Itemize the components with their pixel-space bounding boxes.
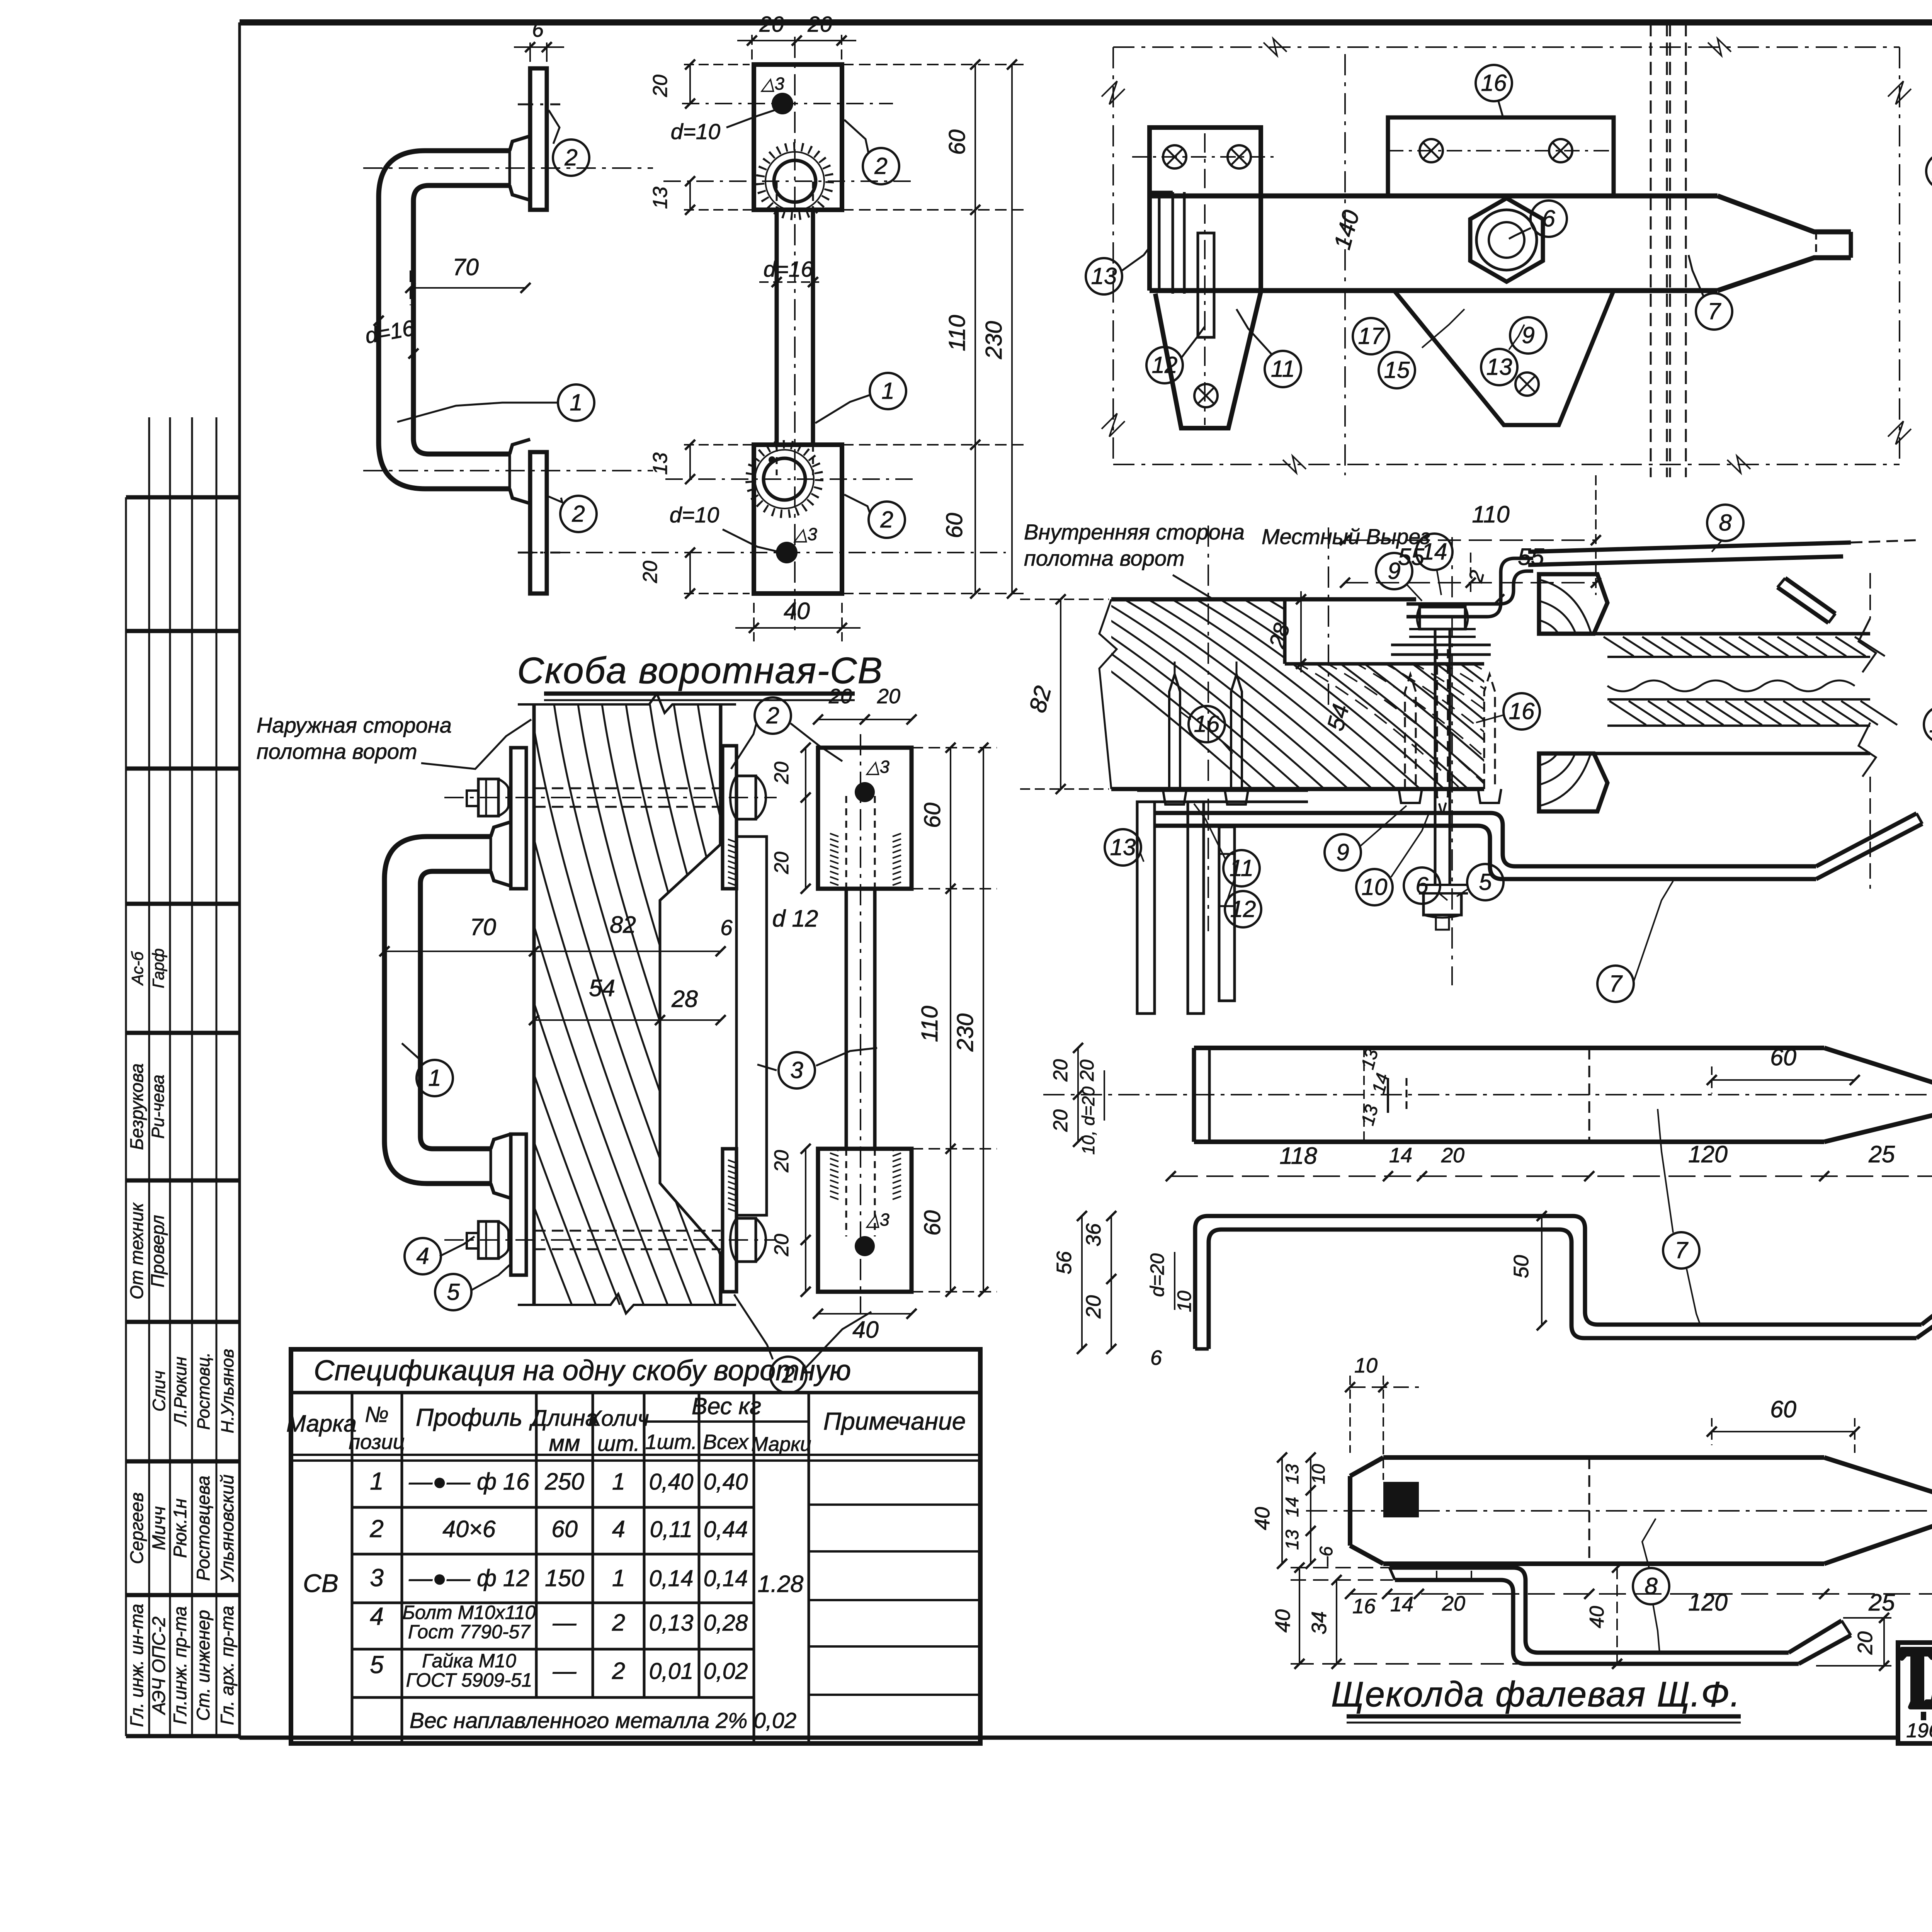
svg-text:60: 60 (944, 129, 970, 155)
dim 70 (405, 254, 531, 305)
stamp names (rotated) (126, 1475, 237, 1582)
svg-text:АЭЧ ОПС-2: АЭЧ ОПС-2 (148, 1617, 169, 1716)
label d=16 (side) (363, 316, 418, 359)
svg-text:20: 20 (1082, 1295, 1105, 1319)
svg-text:20: 20 (1854, 1631, 1877, 1655)
nut item 5 bottom (730, 1218, 766, 1262)
callout 12 (plan) (1146, 327, 1205, 383)
svg-text:60: 60 (1770, 1044, 1796, 1070)
svg-text:Марки: Марки (751, 1433, 811, 1456)
stamp job titles (rotated) (126, 1604, 237, 1727)
svg-text:0,40: 0,40 (704, 1469, 748, 1495)
svg-text:10: 10 (1929, 711, 1932, 737)
svg-text:13: 13 (649, 187, 672, 209)
svg-text:20: 20 (770, 1150, 793, 1173)
svg-text:0,01: 0,01 (649, 1658, 694, 1684)
svg-text:40: 40 (1586, 1606, 1608, 1628)
svg-text:9: 9 (1336, 839, 1349, 865)
stamp author row (rotated) (126, 1063, 168, 1150)
svg-text:0,44: 0,44 (704, 1517, 748, 1542)
svg-text:Ас-б: Ас-б (128, 951, 146, 986)
svg-text:1шт.: 1шт. (645, 1430, 697, 1454)
svg-text:d=10: d=10 (670, 503, 719, 527)
slider item 12 (plan) (1198, 233, 1214, 337)
svg-text:60: 60 (551, 1516, 578, 1542)
svg-text:20: 20 (1441, 1144, 1464, 1167)
angle strap horizontal leg (1137, 791, 1308, 802)
svg-text:120: 120 (1688, 1141, 1728, 1167)
svg-text:4: 4 (370, 1602, 384, 1630)
callouts 17/15/13/9 around trapezoid (1353, 309, 1546, 388)
svg-text:12: 12 (1152, 352, 1178, 378)
bolt item 4 top (444, 779, 777, 816)
screws item 16 left pair (1163, 662, 1248, 804)
svg-text:Наружная сторона: Наружная сторона (257, 713, 452, 737)
svg-text:Гл.инж. пр-та: Гл.инж. пр-та (170, 1606, 190, 1725)
svg-text:20: 20 (770, 852, 793, 874)
bar 8 flat view (1306, 1458, 1932, 1564)
svg-text:4: 4 (416, 1243, 429, 1269)
hex nut item 6 on bar (plan) (1470, 198, 1543, 282)
label naruzhnaya storona (257, 713, 531, 769)
svg-text:40×6: 40×6 (442, 1516, 495, 1542)
svg-text:Вес наплавленного металла 2%: Вес наплавленного металла 2% 0,02 (410, 1708, 796, 1733)
svg-text:14: 14 (1389, 1144, 1412, 1167)
svg-text:Мичч: Мичч (148, 1506, 169, 1550)
callout 8 (flat views) (1633, 1519, 1669, 1653)
svg-text:Примечание: Примечание (823, 1407, 966, 1435)
svg-text:8: 8 (1645, 1573, 1658, 1599)
label mestnyi vyrez (1262, 524, 1430, 549)
gate leaf 2 post with end grain (1539, 574, 1607, 811)
hanging bar item 11 leg (1188, 802, 1204, 1014)
svg-text:70: 70 (452, 254, 479, 280)
callout 10 long leader (1924, 706, 1932, 743)
svg-text:16: 16 (1194, 711, 1220, 737)
callout 13 (plan) (1086, 247, 1150, 294)
svg-text:10: 10 (1173, 1291, 1195, 1312)
svg-text:4: 4 (612, 1516, 625, 1542)
svg-text:мм: мм (549, 1430, 580, 1456)
section dim 20 top right (1464, 568, 1504, 604)
title block frame (1898, 1643, 1932, 1743)
section centerline verticals (1208, 526, 1452, 985)
svg-text:6: 6 (532, 18, 544, 41)
bar 8 dims top 10 (1345, 1354, 1419, 1480)
svg-text:Профиль: Профиль (416, 1403, 522, 1431)
svg-text:Местный Вырез: Местный Вырез (1262, 524, 1430, 549)
title: Skoba vorotnaya-SV (517, 650, 883, 700)
svg-text:2: 2 (766, 702, 779, 728)
section callout 16 left (1179, 706, 1233, 753)
section dim 28 (1264, 591, 1306, 672)
middle keeper top tab (plan) (1388, 117, 1614, 196)
section dim 54 rotated (1322, 701, 1354, 733)
bar 7 bottom dims 118/14/20/120/25 (1166, 1141, 1932, 1181)
svg-text:120: 120 (1688, 1589, 1728, 1616)
svg-text:20: 20 (828, 685, 852, 708)
callout 2 (mounted top) (731, 697, 842, 769)
bar 7 hook right (section) (1816, 813, 1922, 879)
dim 60 over bar 7 taper (1707, 1044, 1860, 1094)
callout 7 (flat views) (1658, 1109, 1700, 1325)
stamp signatures (rotated squiggles) (149, 1349, 237, 1434)
latch bar item 7 (plan) (1150, 196, 1851, 291)
mortise notch in board (660, 844, 721, 1251)
bar 7 mid hole dims 13/14/13 (1357, 1047, 1393, 1144)
face plate item 2 inner bottom (723, 1149, 736, 1292)
bar 7 left end dims (1049, 1043, 1104, 1155)
svg-text:230: 230 (952, 1014, 978, 1052)
svg-text:7: 7 (1609, 971, 1623, 997)
svg-text:36: 36 (1082, 1223, 1105, 1247)
svg-text:1: 1 (428, 1065, 441, 1091)
skoba side view centerlines (363, 168, 653, 471)
section callout 8 (1707, 505, 1743, 552)
section bottom callouts 13/11/12 (1105, 804, 1261, 927)
svg-text:2: 2 (612, 1658, 625, 1684)
svg-text:13: 13 (1091, 263, 1117, 289)
svg-text:Скоба воротная-СВ: Скоба воротная-СВ (517, 650, 883, 691)
skoba handle in section (384, 822, 511, 1198)
left spec table grid (291, 1393, 980, 1743)
svg-text:7: 7 (1675, 1237, 1689, 1263)
svg-text:11: 11 (1230, 855, 1253, 881)
svg-text:Ростовц.: Ростовц. (194, 1352, 213, 1430)
left spec table title (291, 1354, 980, 1393)
stamp checker row (rotated) (126, 1202, 168, 1299)
svg-text:Колич: Колич (588, 1406, 649, 1431)
svg-text:Ри-чева: Ри-чева (148, 1075, 168, 1139)
callout 1 (mounted) (402, 1043, 453, 1096)
svg-text:60: 60 (942, 513, 967, 538)
svg-text:полотна ворот: полотна ворот (1024, 546, 1185, 570)
svg-text:250: 250 (544, 1468, 584, 1495)
front view rod end ring bottom (750, 444, 819, 514)
section line verticals (1345, 23, 1686, 477)
svg-text:6: 6 (1415, 872, 1429, 898)
svg-text:20: 20 (1049, 1109, 1072, 1132)
svg-text:0,02: 0,02 (704, 1658, 748, 1684)
svg-text:60: 60 (920, 803, 945, 828)
sheet frame (240, 17, 1932, 1745)
svg-text:6: 6 (1542, 206, 1555, 231)
plan bottom dims 110 / 55 55 (1340, 475, 1601, 595)
svg-text:△3: △3 (760, 74, 784, 94)
plate 11 screw holes (1132, 145, 1275, 407)
svg-text:6: 6 (720, 915, 733, 940)
callout 2 (front top) (844, 120, 899, 184)
screws item 16 right group (1399, 649, 1501, 815)
section bottom callouts 9/10/6/5 (1325, 806, 1503, 905)
svg-text:40: 40 (784, 598, 810, 624)
left spec table header text (286, 1393, 966, 1456)
svg-text:1: 1 (881, 378, 894, 404)
svg-text:20: 20 (639, 561, 662, 583)
svg-text:16: 16 (1509, 698, 1535, 724)
callout 13 with long leader (1926, 153, 1932, 193)
plate 11 centerline (plan) (1159, 133, 1205, 425)
svg-text:28: 28 (671, 986, 698, 1012)
skoba side view: plate item 2 bottom (edge) (518, 452, 560, 594)
slider bar item 12 (section) (1219, 827, 1235, 1001)
svg-text:№: № (365, 1402, 389, 1427)
svg-text:Гарф: Гарф (149, 948, 167, 988)
svg-text:полотна ворот: полотна ворот (257, 739, 417, 764)
svg-text:16: 16 (1481, 70, 1507, 96)
callout 6 (plan) (1509, 201, 1567, 239)
svg-text:Всех: Всех (703, 1430, 749, 1454)
svg-text:15: 15 (1384, 357, 1410, 383)
bar 8 bottom dims 16/14/20/120/25 (1345, 1589, 1932, 1618)
svg-text:3: 3 (370, 1564, 384, 1592)
svg-text:Марка: Марка (286, 1410, 357, 1437)
svg-text:25: 25 (1868, 1589, 1895, 1616)
bar 7 flat view (1043, 1048, 1932, 1142)
keeper plate pair (edge view) with serrations top (728, 837, 767, 1215)
svg-text:13: 13 (1486, 354, 1512, 380)
svg-text:9: 9 (1388, 558, 1400, 584)
svg-text:12: 12 (1230, 896, 1256, 922)
bolt item 4 bottom (444, 1221, 777, 1259)
front view weld dot bottom d=10 (776, 524, 817, 563)
title: Schekolda falevaya (1331, 1675, 1741, 1723)
svg-text:110: 110 (1472, 501, 1509, 527)
svg-text:50: 50 (1510, 1255, 1533, 1278)
svg-text:Слич: Слич (149, 1371, 169, 1412)
svg-text:позиц: позиц (349, 1430, 405, 1454)
skoba front view: plate item 2 bottom (754, 445, 842, 594)
svg-text:Гл. арх. пр-та: Гл. арх. пр-та (217, 1606, 237, 1725)
svg-text:118: 118 (1279, 1143, 1317, 1169)
svg-text:82: 82 (610, 912, 636, 938)
middle keeper bottom trapezoid (plan) (1394, 291, 1614, 425)
left small dims 20/13/13/20 (639, 60, 754, 599)
section callout 9 top (1376, 553, 1422, 601)
svg-text:Безрукова: Безрукова (126, 1063, 147, 1150)
svg-text:Болт М10х110: Болт М10х110 (403, 1602, 536, 1623)
svg-text:d=16: d=16 (764, 257, 813, 282)
small 20 dims column (770, 743, 811, 1297)
svg-text:2: 2 (781, 1362, 794, 1388)
svg-text:СВ: СВ (303, 1569, 338, 1597)
callout 2 (side top) (549, 110, 589, 176)
svg-text:56: 56 (1053, 1251, 1076, 1274)
svg-text:Гост 7790-57: Гост 7790-57 (408, 1621, 531, 1643)
plan view cutout boundary (dash-dot) (1102, 39, 1911, 473)
svg-text:16: 16 (1352, 1595, 1376, 1618)
svg-text:0,14: 0,14 (704, 1566, 748, 1591)
svg-text:14: 14 (1422, 539, 1447, 565)
label d=10 top (671, 110, 775, 144)
svg-text:14: 14 (1390, 1593, 1413, 1616)
rod assembly front (item 3) (818, 734, 912, 1314)
svg-text:14: 14 (1282, 1497, 1302, 1517)
svg-text:3: 3 (790, 1057, 803, 1083)
section callout 14 (1416, 534, 1452, 595)
callout 11 (plan) (1236, 309, 1301, 387)
front view centerlines (520, 37, 1006, 634)
svg-text:230: 230 (981, 321, 1007, 360)
svg-text:Рюк.1н: Рюк.1н (170, 1498, 190, 1558)
svg-text:10: 10 (1354, 1354, 1378, 1377)
svg-text:110: 110 (944, 315, 970, 351)
bar 7 side dims 56/36/20/d20/10/6/50/20 (1053, 1211, 1932, 1369)
left spec table box (291, 1349, 980, 1743)
skoba front view: plate item 2 top (754, 65, 842, 210)
top dims 20 20 (section) (813, 685, 917, 724)
svg-text:Проверл: Проверл (147, 1215, 168, 1287)
dim 60 over bar 8 taper (1707, 1396, 1860, 1453)
svg-text:20: 20 (770, 1234, 793, 1257)
svg-text:Ульяновский: Ульяновский (217, 1475, 237, 1582)
right dim stack 60/110/60/230 (section) (912, 743, 997, 1297)
svg-text:20: 20 (1076, 1060, 1098, 1082)
top dim 20 20 (737, 12, 856, 62)
svg-text:0,13: 0,13 (649, 1610, 694, 1636)
skoba side view: handle tube item 1 (379, 151, 510, 489)
svg-text:2: 2 (874, 153, 887, 179)
svg-text:10, d=20: 10, d=20 (1078, 1087, 1098, 1155)
left bracket plate item 11 (plan) (1150, 128, 1261, 428)
svg-text:1: 1 (370, 1467, 384, 1495)
svg-text:17: 17 (1358, 323, 1385, 349)
stamp column grid (126, 417, 240, 1736)
svg-text:110: 110 (917, 1006, 942, 1042)
svg-text:Гл. инж. ин-та: Гл. инж. ин-та (126, 1604, 147, 1727)
svg-text:2: 2 (612, 1609, 625, 1636)
section callout 16 right (1476, 693, 1540, 730)
svg-text:ГОСТ 5909-51: ГОСТ 5909-51 (406, 1669, 532, 1691)
nut item 5 top (730, 776, 766, 819)
bar 8 side dims 6/40/34/40/20 (1271, 1546, 1891, 1671)
svg-text:5: 5 (447, 1279, 460, 1305)
face plate item 2 outer top (511, 748, 526, 889)
face plate item 2 outer bottom (511, 1134, 526, 1275)
svg-text:Внутренняя сторона: Внутренняя сторона (1024, 520, 1245, 544)
svg-text:2: 2 (564, 145, 577, 170)
svg-text:1: 1 (612, 1468, 625, 1495)
svg-text:d 12: d 12 (772, 905, 818, 932)
stamp upper scribbles (rotated) (128, 948, 167, 988)
dims 70/82/6/d12 row (379, 905, 818, 956)
bent keeper bar item 9 top (1406, 558, 1533, 617)
svg-text:Н.Ульянов: Н.Ульянов (218, 1349, 237, 1434)
svg-text:—●— ф 16: —●— ф 16 (408, 1468, 529, 1495)
svg-text:8: 8 (1719, 510, 1732, 536)
svg-text:13: 13 (649, 452, 672, 475)
svg-text:70: 70 (470, 914, 496, 940)
callout 5 (435, 1264, 511, 1310)
section: mid reduced board dashed grain (1294, 662, 1663, 789)
gate board (wood section, hatched) (386, 694, 1075, 1313)
svg-text:шт.: шт. (597, 1431, 640, 1456)
dims 54/28 row (529, 975, 726, 1025)
svg-text:—: — (553, 1658, 577, 1684)
latch bar 7 in section (Z run) (1155, 813, 1816, 879)
svg-text:△3: △3 (866, 757, 889, 777)
svg-text:Гайка М10: Гайка М10 (422, 1650, 516, 1672)
svg-text:13: 13 (1282, 1530, 1302, 1550)
callout 3 (mounted) (757, 1048, 877, 1088)
rotated dim 140 (1329, 207, 1364, 252)
svg-text:2: 2 (369, 1515, 384, 1543)
section dim 82 (1020, 594, 1109, 794)
svg-text:5: 5 (1479, 869, 1492, 895)
svg-text:7: 7 (1708, 298, 1721, 324)
label d=16 (front) (759, 257, 819, 287)
bar 8 side view (1389, 1568, 1851, 1664)
callout 2 (side bottom) (549, 496, 597, 532)
bar 7 side view (Z-bend) (1195, 1216, 1932, 1349)
skoba side view: plate item 2 top (edge) (518, 68, 560, 210)
svg-text:Ст. инженер: Ст. инженер (193, 1610, 213, 1721)
svg-text:0,14: 0,14 (649, 1566, 694, 1591)
svg-text:60: 60 (1770, 1396, 1796, 1422)
svg-text:Ростовцева: Ростовцева (193, 1476, 213, 1581)
front view weld dot top d=10 (760, 74, 793, 114)
svg-text:20: 20 (759, 12, 784, 37)
TD logo (1902, 1647, 1932, 1742)
bottom dim 40 (735, 598, 861, 641)
svg-text:1: 1 (612, 1565, 625, 1591)
svg-text:54: 54 (589, 975, 615, 1001)
svg-text:13: 13 (1110, 834, 1136, 860)
svg-text:△3: △3 (866, 1210, 889, 1230)
label d=10 bottom (670, 503, 779, 552)
svg-text:Сергеев: Сергеев (126, 1492, 147, 1564)
callout 2 (mounted bottom) (734, 1294, 871, 1393)
dim 6 (plate thickness) (514, 18, 564, 62)
svg-text:0,28: 0,28 (704, 1610, 748, 1636)
svg-text:Вес кг: Вес кг (692, 1393, 761, 1419)
svg-text:11: 11 (1271, 356, 1295, 382)
callout 4 (405, 1236, 474, 1274)
svg-text:—●— ф 12: —●— ф 12 (408, 1565, 529, 1591)
svg-text:150: 150 (545, 1565, 584, 1591)
svg-text:0,11: 0,11 (650, 1517, 692, 1542)
leaf 2 boards horizontal (1583, 634, 1897, 753)
svg-text:13: 13 (1282, 1464, 1302, 1484)
svg-text:Л.Рюкин: Л.Рюкин (170, 1357, 190, 1427)
svg-text:20: 20 (1049, 1059, 1072, 1082)
svg-text:20: 20 (1442, 1592, 1465, 1615)
svg-text:6: 6 (1150, 1346, 1162, 1369)
svg-text:1961г: 1961г (1906, 1719, 1932, 1742)
skoba front view: rod item 1 (777, 182, 813, 475)
svg-text:d=10: d=10 (671, 119, 721, 144)
bar 8 hook at right (1777, 578, 1835, 623)
svg-text:—: — (553, 1609, 577, 1636)
right dim 230 (981, 60, 1017, 599)
svg-text:△3: △3 (793, 524, 817, 544)
section: left board hatched (997, 595, 1778, 810)
skoba side view: flares into plates (510, 136, 530, 503)
svg-text:d=20: d=20 (1146, 1253, 1168, 1297)
leaf2 break marks right (1859, 573, 1876, 889)
svg-text:2: 2 (571, 501, 585, 527)
bar 8 left dims 40/13/14/13/10 (1251, 1452, 1328, 1569)
svg-text:Длина: Длина (529, 1405, 598, 1431)
right dim stack 60/110/60 (842, 60, 1026, 599)
callout 16 (plan) (1476, 65, 1512, 117)
hanging bar item 13 (1137, 802, 1155, 1014)
labels vnutrennyaya storona (1024, 520, 1245, 599)
front view rod end ring top (760, 146, 830, 216)
svg-text:25: 25 (1868, 1141, 1895, 1167)
spring bar item 8 top run (1528, 540, 1917, 565)
face plate item 2 inner top (723, 746, 736, 889)
